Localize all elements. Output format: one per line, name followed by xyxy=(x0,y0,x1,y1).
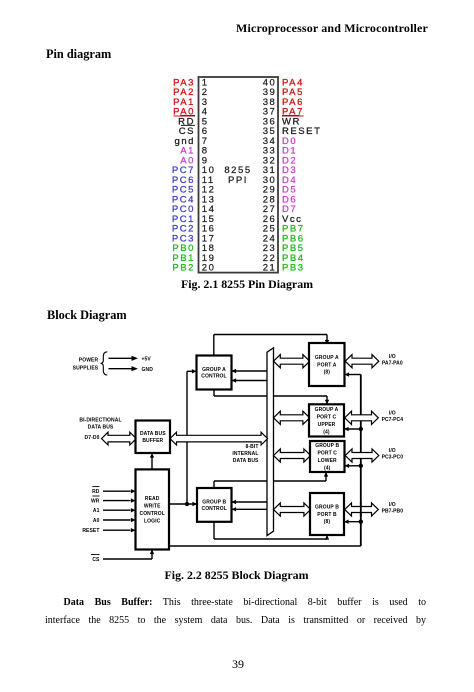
svg-text:D7-D0: D7-D0 xyxy=(85,435,100,441)
wire CS into read write logic xyxy=(103,550,154,560)
heading Pin diagram xyxy=(46,47,111,62)
pin 8 A1 xyxy=(180,146,208,157)
pin 17 PC3 xyxy=(172,233,216,244)
pin 5 RD xyxy=(178,116,208,128)
input CS xyxy=(91,555,100,564)
group B port C lower box xyxy=(310,441,345,472)
pin 36 WR xyxy=(263,116,301,128)
pin 11 PC6 xyxy=(172,175,215,186)
wire control feedback from read write logic to ports xyxy=(169,372,363,546)
svg-text:DATA BUS: DATA BUS xyxy=(88,424,114,430)
svg-text:DATA BUS: DATA BUS xyxy=(140,431,166,437)
input A1 xyxy=(93,508,136,514)
pin 35 RESET xyxy=(263,126,322,137)
group B control box xyxy=(197,488,232,522)
pin 40 PA4 xyxy=(263,77,304,88)
svg-text:PC7-PC4: PC7-PC4 xyxy=(382,417,404,423)
input WR xyxy=(91,496,136,505)
svg-text:CS: CS xyxy=(92,557,100,563)
svg-text:DATA BUS: DATA BUS xyxy=(233,458,259,464)
svg-text:(8): (8) xyxy=(324,370,331,376)
svg-text:LOWER: LOWER xyxy=(318,458,337,464)
wire read write logic to group controls xyxy=(169,369,197,506)
port B to I/O arrow xyxy=(345,503,379,516)
pin 19 PB1 xyxy=(172,253,215,264)
pin 3 PA1 xyxy=(173,97,209,108)
svg-text:PORT C: PORT C xyxy=(317,414,337,420)
data bus buffer box xyxy=(136,421,171,454)
svg-text:UPPER: UPPER xyxy=(318,422,336,428)
pin 31 D3 xyxy=(263,165,298,176)
port A to I/O arrow xyxy=(345,355,379,368)
pin 37 PA7 xyxy=(263,107,304,118)
header: Microprocessor and Microcontroller xyxy=(236,21,428,36)
I/O PB7-PB0 label xyxy=(382,502,404,515)
bi-directional data bus label xyxy=(79,418,121,431)
power supplies xyxy=(73,352,154,375)
page number xyxy=(0,657,474,672)
svg-text:GROUP B: GROUP B xyxy=(202,499,226,505)
pin 25 PB7 xyxy=(263,224,305,235)
svg-text:READ: READ xyxy=(145,496,160,502)
wire group A control bottom to port C upper xyxy=(214,390,329,405)
svg-text:GND: GND xyxy=(142,367,154,373)
svg-text:GROUP B: GROUP B xyxy=(315,443,339,449)
svg-text:POWER: POWER xyxy=(79,358,99,364)
bus to port C upper arrow xyxy=(274,411,310,424)
pin 2 PA2 xyxy=(173,87,209,98)
svg-text:GROUP A: GROUP A xyxy=(315,355,339,361)
pin 4 PA0 xyxy=(173,107,209,118)
svg-text:PORT B: PORT B xyxy=(317,512,337,518)
pin 15 PC1 xyxy=(172,214,216,225)
svg-text:RESET: RESET xyxy=(82,528,99,534)
pin 38 PA6 xyxy=(263,97,304,108)
group A port C upper box xyxy=(309,404,344,436)
svg-text:PA7-PA0: PA7-PA0 xyxy=(382,360,403,366)
wire group B control bottom to port B xyxy=(214,522,329,540)
wire group A control top loop to port A xyxy=(214,335,329,356)
svg-text:CONTROL: CONTROL xyxy=(139,511,164,517)
svg-text:SUPPLIES: SUPPLIES xyxy=(73,365,99,371)
caption Fig 2.2 xyxy=(0,568,473,583)
svg-text:I/O: I/O xyxy=(389,502,396,508)
pin 16 PC2 xyxy=(172,224,216,235)
svg-text:A1: A1 xyxy=(93,508,100,514)
I/O PC7-PC4 label xyxy=(382,411,404,424)
pin 10 PC7 xyxy=(172,165,216,176)
pin 1 PA3 xyxy=(173,77,209,88)
svg-text:(8): (8) xyxy=(324,519,331,525)
svg-text:GROUP A: GROUP A xyxy=(202,367,226,373)
group A control box xyxy=(197,356,232,390)
svg-text:PC3-PC0: PC3-PC0 xyxy=(382,455,404,461)
bus to port A arrow xyxy=(274,355,310,368)
svg-text:A0: A0 xyxy=(93,518,100,524)
port C upper to I/O arrow xyxy=(345,411,379,424)
paragraph xyxy=(45,594,426,612)
I/O PC3-PC0 label xyxy=(382,448,404,461)
pin 30 D4 xyxy=(263,175,298,186)
bus to port B arrow xyxy=(274,503,311,516)
svg-text:PORT A: PORT A xyxy=(317,362,337,368)
pin 34 D0 xyxy=(263,136,298,147)
wire read write logic to data bus buffer xyxy=(150,453,154,469)
svg-text:+5V: +5V xyxy=(142,356,152,362)
bus to port C lower arrow xyxy=(274,449,311,462)
port C lower to I/O arrow xyxy=(345,449,379,462)
pin 7 gnd xyxy=(174,136,208,147)
pin 32 D2 xyxy=(263,155,298,166)
wire internal bus to group B control xyxy=(232,500,268,504)
pin 13 PC4 xyxy=(172,194,216,205)
svg-text:CONTROL: CONTROL xyxy=(201,374,226,380)
svg-text:I/O: I/O xyxy=(389,448,396,454)
svg-text:(4): (4) xyxy=(323,429,330,435)
I/O PA7-PA0 label xyxy=(382,354,403,367)
svg-text:(4): (4) xyxy=(324,466,331,472)
wire internal bus to group A control xyxy=(232,369,268,373)
svg-text:BI-DIRECTIONAL: BI-DIRECTIONAL xyxy=(79,418,121,424)
pin 28 D6 xyxy=(263,194,298,205)
input RD xyxy=(92,487,135,496)
group A port A box xyxy=(309,343,345,386)
input RESET xyxy=(82,528,135,534)
pin 9 A0 xyxy=(180,155,208,166)
svg-text:I/O: I/O xyxy=(389,411,396,417)
svg-text:GROUP A: GROUP A xyxy=(315,407,339,413)
chip label 8255 PPI xyxy=(224,165,251,186)
pin 22 PB4 xyxy=(263,253,305,264)
read write control logic box xyxy=(136,469,170,549)
pin 23 PB5 xyxy=(263,243,305,254)
pin 12 PC5 xyxy=(172,185,216,196)
pin 27 D7 xyxy=(263,204,298,215)
pin 33 D1 xyxy=(263,146,298,157)
svg-text:INTERNAL: INTERNAL xyxy=(232,451,258,457)
pin 20 PB2 xyxy=(172,263,215,274)
heading Block Diagram xyxy=(47,308,127,323)
caption Fig 2.1 xyxy=(0,277,474,292)
pin 26 Vcc xyxy=(263,214,303,225)
pin 18 PB0 xyxy=(172,243,215,254)
pin 39 PA5 xyxy=(263,87,304,98)
wire group B control top to port C lower xyxy=(214,472,328,488)
svg-text:PORT C: PORT C xyxy=(317,451,337,457)
svg-text:WR: WR xyxy=(91,499,100,505)
pin 29 D5 xyxy=(263,185,298,196)
svg-text:LOGIC: LOGIC xyxy=(144,519,161,525)
pin 6 CS xyxy=(179,125,209,137)
data bus D7-D0 arrow xyxy=(102,432,137,445)
8-bit internal data bus label xyxy=(232,444,259,464)
svg-text:BUFFER: BUFFER xyxy=(142,438,163,444)
pin 14 PC0 xyxy=(172,204,216,215)
svg-text:CONTROL: CONTROL xyxy=(201,506,226,512)
svg-text:RD: RD xyxy=(92,489,100,495)
internal data bus (vertical) xyxy=(267,348,274,536)
svg-text:8-BIT: 8-BIT xyxy=(246,444,259,450)
input A0 xyxy=(93,518,136,524)
pin 24 PB6 xyxy=(263,233,305,244)
svg-text:GROUP B: GROUP B xyxy=(315,505,339,511)
svg-text:PB7-PB0: PB7-PB0 xyxy=(382,509,404,515)
pin 21 PB3 xyxy=(263,263,305,274)
wire crossing port B arrow xyxy=(360,502,362,517)
svg-text:I/O: I/O xyxy=(389,354,396,360)
8-bit internal data bus arrow xyxy=(170,432,268,445)
svg-text:WRITE: WRITE xyxy=(144,504,161,510)
IC body 8255 xyxy=(199,77,279,273)
group B port B box xyxy=(310,493,344,535)
